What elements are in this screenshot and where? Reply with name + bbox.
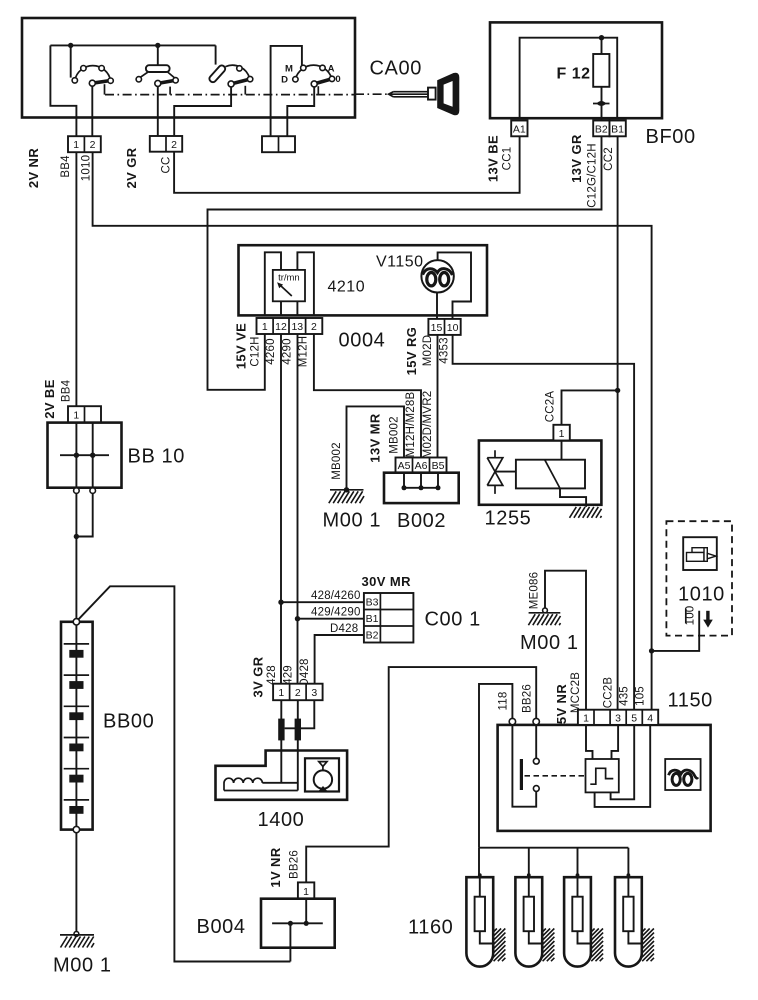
1150 power switch contacts [533,758,539,764]
pulse waveform symbol [590,768,613,784]
svg-text:1: 1 [73,139,79,151]
1150 pin row 1 _ 3 5 4 [578,710,658,725]
svg-text:CC1: CC1 [502,147,514,171]
svg-text:B002: B002 [397,510,446,532]
switch S1 pivot [89,80,95,86]
battery-feed mark on B2 lead [593,103,610,105]
1010 icon box [683,537,717,570]
wire: coil to ground step [560,488,586,507]
wire: pin 4 from timer bottom [595,725,651,807]
svg-text:2V BE: 2V BE [42,379,57,419]
1150 input terminals [509,718,515,724]
splice unit B002 [384,473,459,503]
svg-text:M02D: M02D [422,335,434,366]
fuse box BF00 [490,22,662,118]
svg-text:2V NR: 2V NR [26,148,41,189]
node: BB10 junctions [74,453,79,458]
battery positive unit BB10 pin 1 [68,406,101,422]
svg-text:BB26: BB26 [289,850,301,879]
svg-text:ME086: ME086 [529,572,541,609]
wire: bulb bottom to pin 15 [436,292,438,319]
wire: BB10 internal verticals [76,423,92,488]
pre-heating control unit 1150 [498,725,711,831]
svg-text:4290: 4290 [282,338,294,364]
mechanical coupling dash-dot line [105,94,355,96]
svg-text:CC2B: CC2B [603,677,615,709]
switch S2 contact bar [146,65,170,72]
wire: BB10 outputs merge [76,493,92,618]
0004 pin row 15 10 [428,319,460,335]
svg-text:2: 2 [171,139,177,151]
switch S2 pivot [155,80,161,86]
wire: net MCC2B from 1150 pin 1 to ground ME086 [545,571,586,710]
svg-text:2V GR: 2V GR [124,147,139,188]
wire: 428 into 1400 [280,700,282,783]
svg-text:BB4: BB4 [61,379,73,402]
junction unit BB10 [48,423,122,488]
BB10 output terminals [74,488,80,494]
switch S3 contacts [237,66,242,71]
svg-text:1150: 1150 [668,690,713,712]
wire: bus drop to S3 bar [215,45,217,64]
svg-text:4: 4 [647,713,653,725]
svg-text:M00 1: M00 1 [323,510,382,532]
battery BB00 body [61,622,93,830]
switch S1 moving arm [92,81,110,84]
svg-text:M12H: M12H [298,336,310,367]
nodes: B002 junctions [402,485,407,490]
mechanical tick S2 [169,87,171,95]
switch S1 contact circles [72,78,77,83]
wire: B004 internal bar [272,922,323,924]
wire: net MB002 from A5 to ground [347,406,405,489]
switch S2 bar-to-contact links [140,72,174,78]
nodes: B004 junctions [304,921,309,926]
BB00 terminals [73,619,79,625]
wire: pin 1 into coil [561,441,563,460]
switch S3 moving arm [231,79,249,84]
wire: S2 pivot to connector [157,87,159,136]
BB00 cells [64,644,89,814]
wire: branch 429/4290 to B1 [298,618,364,620]
ground M001 (ME086) [528,608,560,625]
connector C001 [364,593,414,643]
svg-text:D: D [281,75,288,86]
svg-text:CA00: CA00 [370,58,422,80]
wire: transil to coil [495,471,516,473]
dashed actuator link [525,775,586,777]
svg-text:M00 1: M00 1 [520,632,579,654]
wire: pins 1-12 loop [265,252,281,315]
svg-text:2: 2 [90,139,96,151]
svg-text:B5: B5 [432,460,445,472]
glow plug 4 (1160) [615,873,654,966]
timing device in 1400 [305,758,339,792]
rev-counter tr/mn instrument [273,270,305,301]
wire: S4 feed inverted-U to M contact [271,46,302,136]
0004 pin row 1 12 13 2 [257,318,323,334]
svg-text:1: 1 [583,713,589,725]
svg-text:C12G/C12H: C12G/C12H [587,143,599,207]
wire: net 4290 down to connector pin 2 [297,334,299,684]
svg-text:3: 3 [615,713,621,725]
direction arrow (1010 feed) [703,611,713,628]
splice sleeve on 428 [278,719,284,741]
splice unit B004 [261,899,335,948]
node: bus junction at S2 [155,43,160,48]
svg-text:tr/mn: tr/mn [278,272,300,283]
svg-text:F 12: F 12 [556,66,590,83]
node: merge junction [74,534,79,539]
wire: BF00 internal bus [520,38,618,118]
switch S3 pivot [228,81,234,87]
injection pump unit 1400 [216,751,348,800]
wire: net M12H to B002 A6 [314,334,421,458]
key: dash-dot link [355,93,388,95]
mechanical tick S4 [317,86,319,94]
switch S4 contacts M A D 0 [301,65,306,70]
wire: 429 into 1400 [297,700,299,790]
connector pins 1 2 (2V NR) [68,136,101,152]
wire: pin 1 into timer [586,725,593,759]
node: 429 tap [295,616,300,621]
wire: net BB26 from B004 pin up to 1150 [306,667,536,882]
switch S4 pivot [311,81,317,87]
wire: S4 pivot to connector [287,87,314,136]
relay coil box with diagonal [516,460,585,489]
svg-text:CC2: CC2 [603,147,615,171]
wire: BB00 negative to ground [75,833,77,932]
1150 heater element symbol [665,759,700,790]
svg-text:1: 1 [262,321,268,333]
node: ground junction MB002 [344,487,349,492]
svg-text:15V RG: 15V RG [404,327,419,376]
svg-text:CC2A: CC2A [545,391,557,423]
key collar [428,88,436,100]
svg-text:M: M [285,64,293,75]
svg-text:15: 15 [431,322,443,334]
svg-text:M00 1: M00 1 [53,955,112,977]
glow plug 3 (1160) [564,873,603,966]
switch S4 moving arm [314,79,331,84]
svg-text:13: 13 [291,321,303,333]
svg-text:B2: B2 [595,124,608,136]
key shaft [389,92,428,97]
svg-text:MCC2B: MCC2B [570,672,582,713]
svg-text:B2: B2 [366,630,379,642]
wire: internal supply bus [50,44,215,46]
wire: 118 terminal to lower contact [512,725,536,807]
svg-text:0: 0 [335,74,340,85]
wire: drop from bus to S1 contact [70,45,72,77]
relay unit 1255 [479,425,602,518]
bulb V1150 [421,260,453,292]
wire: net M02D to B002 B5 [437,335,439,458]
wire: BB10 internal bar [60,454,109,456]
svg-text:D428: D428 [330,623,358,635]
svg-text:4260: 4260 [265,338,277,364]
svg-text:4210: 4210 [328,278,366,295]
ground M001 (engine, MB002) [329,490,364,503]
wire: net CC2A to relay 1255 pin 1 [562,390,618,424]
svg-text:1400: 1400 [258,809,305,831]
svg-text:B1: B1 [611,124,624,136]
svg-text:MB002: MB002 [331,442,343,479]
svg-text:5V NR: 5V NR [554,684,569,725]
svg-text:D428: D428 [299,658,311,686]
wire: net C12G/C12H from B2 to 0004 pin 1 [208,136,602,389]
wire: net 100 to junction with 1010 rail [652,611,700,651]
switch S3 contact arc [226,65,250,78]
transil protection diodes [487,450,503,494]
wire: net BB4 pin1 down to BB10 [75,152,77,406]
wire: drop bus to S2 bar [157,45,159,65]
wire: bulb top loop to pin 10 [438,252,471,319]
svg-text:M02D/MVR2: M02D/MVR2 [422,391,434,459]
svg-text:428/4260: 428/4260 [311,590,361,602]
key bow [437,73,459,116]
svg-text:BB26: BB26 [522,684,534,713]
wire: net 4353 to 1150 pin 5 [453,335,634,710]
wire: battery + takeoff diagonal to right rail [79,586,291,961]
mechanical tick S1 [104,84,106,94]
svg-text:12: 12 [275,321,287,333]
svg-text:A5: A5 [398,460,411,472]
wire: S1 pivot to pin 2 [91,86,93,136]
wire: net CC2 from B1 down to 1150 pin 3 [617,136,619,709]
wire: B004 to battery rail [289,923,291,961]
svg-text:3V GR: 3V GR [251,656,266,697]
svg-text:1010: 1010 [678,584,725,606]
wire: pin 5 from timer bottom [611,725,635,799]
svg-text:M12H/M28B: M12H/M28B [405,392,417,458]
svg-text:BB4: BB4 [60,155,72,178]
svg-text:2: 2 [295,687,301,699]
svg-text:BF00: BF00 [646,126,696,148]
net 100 underline [685,609,687,624]
glow plug 1 (1160) [466,873,505,966]
svg-text:1V NR: 1V NR [268,847,283,888]
node: bus junction at S1 [68,43,73,48]
svg-text:105: 105 [635,686,647,706]
svg-text:13V BE: 13V BE [486,135,501,182]
wire: pins 13-2 loop [297,252,314,315]
instrument cluster box 0004 [239,245,488,315]
svg-text:435: 435 [619,686,631,706]
svg-text:1: 1 [73,410,79,422]
pin B2 [593,121,609,137]
svg-text:13V MR: 13V MR [368,413,383,463]
switch S2 contacts [136,77,141,82]
svg-text:A1: A1 [513,124,526,136]
svg-text:A6: A6 [415,460,428,472]
wire: net CC to BF00 A1 [174,136,519,193]
svg-text:13V GR: 13V GR [569,134,584,183]
wire: branch D428 from B2 [315,635,364,684]
wire: S1 feed L to pin 1 [50,45,76,136]
mechanical tick S3 [244,86,246,95]
ground M001 (battery) [60,932,94,948]
connector pin 2 (2V GR) [150,136,182,152]
node: 428 tap [278,600,283,605]
wire: B002 internal bar [403,487,439,489]
svg-text:CC: CC [161,156,173,173]
switch S1 contact arc [75,66,111,81]
node: CC2A tap [615,388,620,393]
wire: coil link [262,782,297,784]
svg-text:15V VE: 15V VE [234,323,249,370]
wire: net 4260 down to connector pin 1 [280,334,282,684]
pin 1 of 1255 [553,425,569,441]
1150 switch blade [520,759,523,790]
1150 timer box [586,759,619,792]
wire: glow plug supply rail [479,847,628,849]
svg-text:1: 1 [559,428,565,440]
svg-text:B004: B004 [197,916,246,938]
wire: branch 428/4260 to B3 [281,601,364,603]
1010 injector icon [687,548,717,562]
switch S2 moving arm [158,80,175,83]
1400 solenoid coil [224,778,298,790]
wire: BB26 terminal to upper contact [535,725,537,759]
svg-text:429/4290: 429/4290 [311,607,361,619]
wire: B002 pin stubs [404,473,438,488]
svg-text:BB00: BB00 [103,711,154,733]
B002 pins A5 A6 B5 [396,458,447,473]
svg-text:C00 1: C00 1 [425,609,481,631]
svg-text:10: 10 [447,322,459,334]
wire: BB00 center link [75,625,77,826]
svg-text:428: 428 [266,665,278,685]
ground hatch (1255) [570,507,602,518]
svg-text:C12H: C12H [250,336,262,366]
svg-text:5: 5 [631,713,637,725]
svg-text:1160: 1160 [408,917,453,939]
svg-text:1: 1 [303,886,309,898]
wire: net 1010 long run to 1150 pin 4 [93,152,652,710]
pin A1 [511,121,527,137]
switch S4 contact arc [295,65,331,79]
ignition switch module box (CA00) [22,18,355,118]
svg-text:30V MR: 30V MR [362,574,412,589]
svg-text:4353: 4353 [439,337,451,363]
svg-text:B3: B3 [366,597,379,609]
wire: pin 3 into timer [612,725,619,759]
wire: B004 pin stub [305,899,307,924]
wire: net 118 from terminal to glow plug rail [479,684,512,848]
pre/post heating unit 1010 (dashed) [666,521,732,635]
wire: S3 pivot to connector pin 2 [174,87,231,136]
svg-text:1: 1 [278,687,284,699]
svg-text:1255: 1255 [485,508,532,530]
node: fuse tap [599,35,604,40]
svg-text:BB 10: BB 10 [128,445,185,467]
connector pins 1 2 3 (3V GR) [273,684,323,701]
svg-text:0004: 0004 [339,330,386,352]
glow plug 2 (1160) [515,873,554,966]
svg-text:3: 3 [311,687,317,699]
B004 pin 1 [298,882,314,898]
switch S3 angled contact bar [208,64,226,83]
svg-text:A: A [328,64,335,75]
svg-text:V1150: V1150 [376,253,424,270]
BB00 bottom terminal [73,826,79,832]
pin B1 [610,121,626,137]
splice sleeve on 429 [295,719,301,741]
svg-text:118: 118 [498,692,510,711]
bulb filament [423,269,453,286]
connector (switch S4) [262,136,295,152]
node: 1010/105 junction [649,648,654,653]
svg-text:429: 429 [283,665,295,685]
svg-text:MB002: MB002 [389,416,401,453]
svg-text:1010: 1010 [81,155,93,181]
wire: D428 splice link [285,700,315,728]
svg-text:2: 2 [311,321,317,333]
wire: plug feed stubs [479,848,628,875]
fuse F12 body [593,54,609,87]
svg-text:B1: B1 [366,613,379,625]
wire: fuse leads [601,38,603,137]
